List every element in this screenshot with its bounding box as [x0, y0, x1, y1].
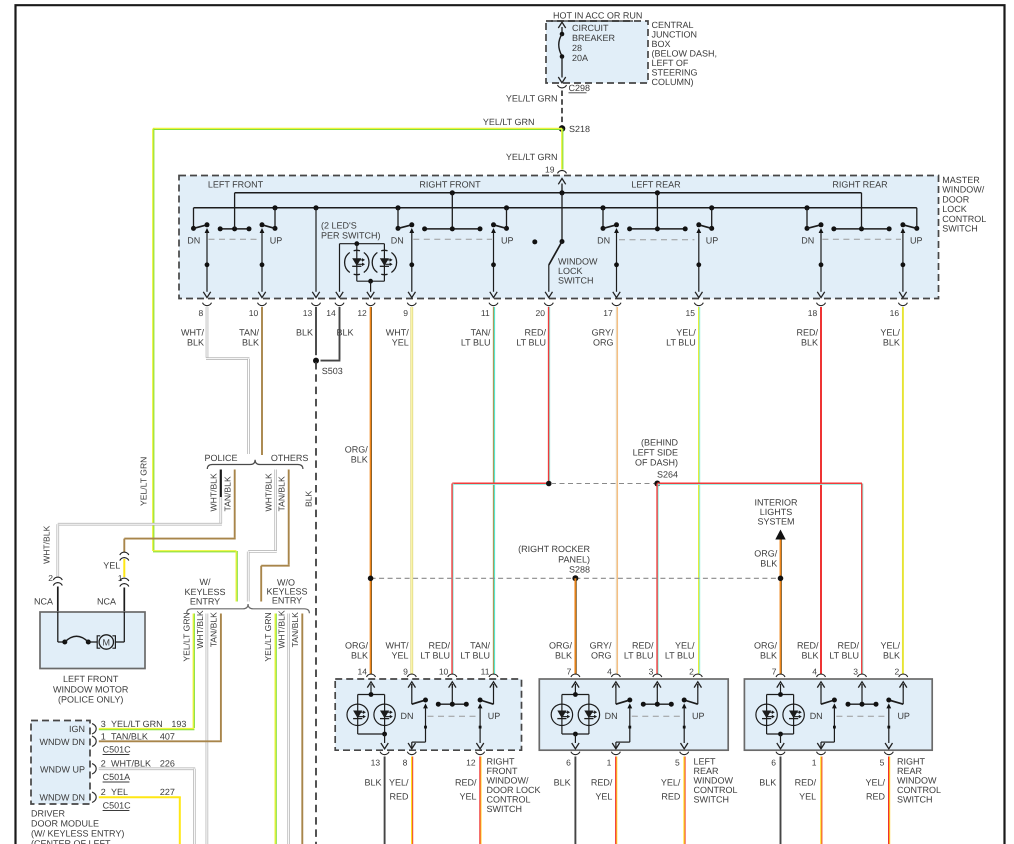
svg-text:WHT/: WHT/	[386, 328, 409, 338]
svg-text:LEFT OF: LEFT OF	[652, 58, 689, 68]
svg-text:CONTROL: CONTROL	[694, 785, 738, 795]
svg-text:TAN/BLK: TAN/BLK	[290, 612, 300, 647]
circuit breaker 28 20A	[561, 27, 563, 34]
svg-text:COLUMN): COLUMN)	[652, 77, 694, 87]
svg-text:LT BLU: LT BLU	[665, 651, 695, 661]
svg-text:WINDOW/: WINDOW/	[942, 185, 984, 195]
svg-text:ENTRY: ENTRY	[190, 597, 220, 607]
svg-text:LT BLU: LT BLU	[829, 651, 859, 661]
wire RED/BLK from pin 18 down	[820, 307, 822, 674]
LED D2	[578, 704, 599, 725]
svg-text:REAR: REAR	[694, 766, 720, 776]
wire BLK dashed from S503 to bottom	[315, 362, 317, 844]
wire BLK from pin 14 to S503	[339, 307, 341, 360]
pin 8 connector/label	[407, 752, 416, 755]
svg-text:15: 15	[686, 308, 696, 318]
svg-text:YEL/LT GRN: YEL/LT GRN	[263, 612, 273, 661]
switch DN blade	[602, 208, 604, 229]
wire ORG/BLK interior lights to right rear pin 7	[780, 540, 782, 675]
wire from UP contact down to pin	[901, 228, 906, 233]
switch common feed	[451, 193, 453, 229]
svg-text:10: 10	[439, 666, 449, 676]
svg-text:RED/: RED/	[591, 778, 613, 788]
pin 17 connector	[612, 303, 621, 306]
svg-text:2: 2	[101, 759, 106, 769]
svg-text:DOOR MODULE: DOOR MODULE	[31, 819, 99, 829]
svg-text:GRY/: GRY/	[590, 641, 612, 651]
wire dashed from C298 to S218	[561, 91, 563, 126]
bus junction at LR common	[655, 190, 660, 195]
svg-text:YEL: YEL	[111, 787, 128, 797]
svg-text:TAN/BLK: TAN/BLK	[276, 476, 286, 511]
svg-text:DN: DN	[801, 236, 814, 246]
svg-text:UP: UP	[692, 711, 705, 721]
connector pin 2 motor	[53, 577, 62, 580]
svg-text:LOCK: LOCK	[942, 204, 967, 214]
svg-text:S288: S288	[569, 565, 590, 575]
svg-text:BREAKER: BREAKER	[572, 33, 616, 43]
svg-text:WINDOW: WINDOW	[558, 257, 598, 267]
svg-text:WNDW UP: WNDW UP	[40, 765, 85, 775]
svg-text:MASTER: MASTER	[942, 175, 980, 185]
wire RED/LT BLU from S264 to right rear branch	[657, 483, 862, 485]
svg-text:BLK: BLK	[296, 328, 313, 338]
svg-text:BLK: BLK	[555, 651, 572, 661]
svg-text:11: 11	[481, 666, 490, 676]
svg-text:12: 12	[466, 758, 476, 768]
master window/door lock control switch box	[179, 176, 939, 299]
pin 1 connector/label	[611, 752, 620, 755]
svg-text:ORG/: ORG/	[754, 641, 778, 651]
svg-text:WNDW DN: WNDW DN	[40, 793, 86, 803]
svg-text:DN: DN	[597, 236, 610, 246]
wire YEL/LT GRN long vertical at left	[152, 129, 154, 551]
svg-text:LIGHTS: LIGHTS	[760, 507, 793, 517]
pin 13 connector/label	[380, 752, 389, 755]
svg-text:ENTRY: ENTRY	[272, 596, 302, 606]
wire from UP contact down to pin	[491, 228, 496, 233]
svg-text:BLK: BLK	[351, 651, 368, 661]
wire RED/LT BLU from pin 20 down to junction	[548, 307, 550, 484]
motor internal leads and switch	[57, 612, 59, 642]
svg-text:6: 6	[566, 758, 571, 768]
svg-text:UP: UP	[897, 711, 910, 721]
wire RED/LT BLU horizontal run	[452, 483, 549, 485]
svg-text:YEL: YEL	[392, 338, 409, 348]
svg-text:ORG: ORG	[593, 338, 614, 348]
svg-text:CENTRAL: CENTRAL	[652, 20, 694, 30]
switch UP	[697, 684, 699, 704]
pin 6 connector/label	[571, 752, 580, 755]
switch DN blade	[397, 208, 399, 229]
bus line upper (common feed)	[235, 192, 862, 194]
wire BLK lr pin6	[574, 757, 576, 844]
svg-text:WHT/: WHT/	[386, 641, 409, 651]
svg-text:(W/ KEYLESS ENTRY): (W/ KEYLESS ENTRY)	[31, 829, 124, 839]
splice S503	[313, 358, 319, 364]
svg-text:1: 1	[812, 758, 817, 768]
wire RED/YEL lr pin1	[615, 757, 617, 844]
svg-text:RED: RED	[661, 792, 681, 802]
svg-text:SWITCH: SWITCH	[942, 224, 978, 234]
LED D1	[756, 704, 777, 725]
svg-text:4: 4	[607, 666, 612, 676]
svg-text:INTERIOR: INTERIOR	[754, 498, 798, 508]
svg-text:YEL/LT GRN: YEL/LT GRN	[506, 152, 558, 162]
wire YEL segment	[123, 559, 125, 577]
driver door module box	[31, 721, 90, 805]
wire from DN contact down to pin	[409, 228, 414, 233]
svg-text:LT BLU: LT BLU	[461, 338, 491, 348]
wire RED/LT BLU from S264 down to left rear pin 3	[656, 484, 658, 675]
pin 11 connector	[489, 303, 498, 306]
svg-text:SWITCH: SWITCH	[487, 804, 523, 814]
switch common	[451, 684, 453, 704]
svg-text:S264: S264	[657, 470, 678, 480]
switch common	[861, 684, 863, 704]
svg-text:WINDOW: WINDOW	[897, 776, 937, 786]
svg-text:2: 2	[689, 666, 694, 676]
svg-text:TAN/: TAN/	[470, 641, 490, 651]
svg-text:DN: DN	[391, 236, 404, 246]
bus2 junction	[272, 205, 277, 210]
svg-text:IGN: IGN	[69, 724, 85, 734]
wire TAN/BLK from pin 10	[261, 307, 263, 455]
svg-text:WHT/: WHT/	[181, 328, 204, 338]
bus junction at pin19	[559, 190, 564, 195]
switch DN	[615, 684, 617, 704]
svg-text:TAN/: TAN/	[471, 328, 491, 338]
wire from DN contact down to pin	[614, 228, 619, 233]
svg-text:19: 19	[545, 165, 555, 175]
svg-text:YEL: YEL	[595, 792, 612, 802]
wire TAN/BLK others branch	[288, 470, 290, 565]
svg-text:YEL/LT GRN: YEL/LT GRN	[111, 719, 163, 729]
svg-text:6: 6	[771, 758, 776, 768]
svg-text:YEL/: YEL/	[880, 328, 900, 338]
wire WHT/BLK w/ keyless	[206, 614, 209, 844]
svg-text:C501A: C501A	[103, 772, 131, 782]
pin 8 connector	[203, 303, 212, 306]
wire BLK rf pin13	[384, 757, 386, 844]
wire ORG/BLK from S288 down to left rear pin 7	[574, 578, 576, 674]
svg-text:UP: UP	[706, 236, 719, 246]
svg-text:YEL: YEL	[459, 792, 476, 802]
svg-text:9: 9	[403, 308, 408, 318]
svg-text:1: 1	[101, 732, 106, 742]
wire YEL/LT GRN from S218 down to pin 19	[561, 129, 563, 170]
svg-text:S218: S218	[569, 124, 590, 134]
svg-text:WHT/BLK: WHT/BLK	[263, 473, 273, 511]
svg-text:SWITCH: SWITCH	[558, 276, 594, 286]
svg-text:2: 2	[48, 573, 53, 583]
svg-text:DN: DN	[810, 711, 823, 721]
svg-text:YEL/LT GRN: YEL/LT GRN	[139, 457, 149, 506]
splice S288	[572, 575, 578, 581]
svg-text:16: 16	[890, 308, 900, 318]
svg-text:WINDOW MOTOR: WINDOW MOTOR	[53, 685, 129, 695]
svg-text:PER SWITCH): PER SWITCH)	[321, 231, 381, 241]
svg-text:LEFT FRONT: LEFT FRONT	[208, 180, 264, 190]
junction interior wire at dashed line	[778, 576, 784, 582]
svg-text:RIGHT FRONT: RIGHT FRONT	[419, 180, 481, 190]
svg-text:BLK: BLK	[351, 455, 368, 465]
svg-text:STEERING: STEERING	[652, 68, 698, 78]
wire from UP contact down to pin	[260, 228, 265, 233]
svg-text:BLK: BLK	[883, 651, 900, 661]
LED D2	[783, 704, 804, 725]
wire GRY/ORG from pin 17 down	[616, 307, 618, 674]
svg-text:(BELOW DASH,: (BELOW DASH,	[652, 49, 718, 59]
pin 12 connector/label	[476, 752, 485, 755]
svg-text:7: 7	[567, 666, 572, 676]
svg-text:(2 LED'S: (2 LED'S	[321, 221, 357, 231]
svg-text:RIGHT: RIGHT	[487, 757, 516, 767]
svg-text:12: 12	[357, 308, 367, 318]
switch UP blade	[274, 208, 276, 229]
svg-text:WHT/BLK: WHT/BLK	[111, 759, 151, 769]
LED D1	[347, 704, 368, 725]
left front window motor box	[40, 612, 145, 669]
svg-text:ORG: ORG	[591, 651, 612, 661]
svg-text:BLK: BLK	[760, 559, 777, 569]
dashed link to S264	[551, 483, 655, 485]
switch UP	[902, 684, 904, 704]
switch UP blade	[914, 226, 919, 231]
svg-text:28: 28	[572, 43, 582, 53]
wire YEL/RED rf pin8	[411, 757, 413, 844]
switch UP	[493, 684, 495, 704]
svg-text:193: 193	[171, 719, 186, 729]
svg-text:DRIVER: DRIVER	[31, 809, 66, 819]
switch common feed	[656, 193, 658, 229]
LED indicator pair	[767, 694, 794, 696]
svg-text:M: M	[103, 637, 111, 647]
svg-text:RED/: RED/	[795, 778, 817, 788]
svg-text:PANEL): PANEL)	[558, 555, 590, 565]
svg-text:BLK: BLK	[760, 651, 777, 661]
svg-text:BLK: BLK	[883, 338, 900, 348]
svg-text:9: 9	[403, 666, 408, 676]
svg-text:OTHERS: OTHERS	[271, 453, 309, 463]
svg-text:JUNCTION: JUNCTION	[652, 30, 698, 40]
pin 10 connector	[258, 303, 267, 306]
wire TAN/BLK w/ keyless	[220, 614, 222, 741]
svg-text:CONTROL: CONTROL	[487, 795, 531, 805]
svg-text:BOX: BOX	[652, 39, 671, 49]
switch DN	[411, 684, 413, 704]
wire YEL from WNDW DN	[99, 796, 181, 798]
svg-text:GRY/: GRY/	[592, 328, 614, 338]
brace POLICE/OTHERS	[207, 460, 303, 469]
svg-text:SYSTEM: SYSTEM	[757, 517, 794, 527]
svg-text:5: 5	[880, 758, 885, 768]
svg-text:BLK: BLK	[801, 338, 818, 348]
wire TAN/LT BLU from pin 11 down	[493, 307, 495, 674]
bus junction at RF common	[450, 190, 455, 195]
pin 5 connector/label	[680, 752, 689, 755]
wire from DN contact down to pin	[819, 228, 824, 233]
pin 6 connector/label	[776, 752, 785, 755]
svg-text:YEL/: YEL/	[880, 641, 900, 651]
motor M symbol	[97, 636, 100, 648]
LED indicator pair	[562, 694, 589, 696]
wire YEL/RED rr pin5	[888, 757, 890, 844]
svg-text:WINDOW/: WINDOW/	[487, 776, 529, 786]
switch common feed	[834, 228, 889, 230]
svg-text:20A: 20A	[572, 53, 588, 63]
wire WHT/YEL from pin 9 down	[410, 307, 413, 674]
svg-text:UP: UP	[501, 236, 514, 246]
wire TAN/BLK w/o keyless	[301, 614, 303, 844]
bus2 junction	[395, 205, 400, 210]
svg-text:WHT/BLK: WHT/BLK	[195, 610, 205, 648]
svg-text:YEL: YEL	[799, 792, 816, 802]
pin 16 connector	[898, 303, 907, 306]
wire YEL/BLK from pin 16 down	[902, 307, 904, 674]
svg-text:BLK: BLK	[242, 338, 259, 348]
pin 5 connector/label	[884, 752, 893, 755]
svg-text:407: 407	[160, 732, 175, 742]
mechanical link (dashed)	[209, 238, 260, 240]
right rear window control switch box	[744, 679, 932, 750]
svg-text:RED/: RED/	[428, 641, 450, 651]
svg-text:2: 2	[894, 666, 899, 676]
right front window/door lock control switch box	[335, 679, 521, 750]
svg-text:BLK: BLK	[304, 490, 314, 507]
wire RED/YEL rf pin12	[479, 757, 481, 844]
svg-text:ORG/: ORG/	[754, 549, 778, 559]
junction ORG/BLK at dashed line	[368, 576, 374, 582]
pin 18 connector	[817, 303, 826, 306]
svg-text:SWITCH: SWITCH	[897, 795, 933, 805]
svg-text:13: 13	[371, 758, 381, 768]
bus2 junction	[804, 205, 809, 210]
svg-text:BLK: BLK	[554, 778, 571, 788]
switch common	[656, 684, 658, 704]
svg-text:UP: UP	[910, 236, 923, 246]
svg-text:REAR: REAR	[897, 766, 923, 776]
svg-text:LOCK: LOCK	[558, 266, 583, 276]
svg-text:RED/: RED/	[796, 328, 818, 338]
svg-text:8: 8	[198, 308, 203, 318]
wire TAN/BLK police branch	[234, 470, 236, 538]
svg-text:3: 3	[101, 719, 106, 729]
bus line lower (switch pivots)	[194, 207, 917, 209]
svg-text:UP: UP	[270, 236, 283, 246]
wire YEL/LT GRN w/ keyless	[193, 614, 195, 729]
wire RED/LT BLU down to right rear pin 3	[861, 484, 863, 675]
dashed splice line S288	[371, 577, 576, 579]
wire YEL/LT BLU from pin 15 down	[698, 307, 700, 674]
svg-text:14: 14	[358, 666, 368, 676]
wire WHT/BLK others branch	[274, 470, 277, 551]
svg-text:WHT/BLK: WHT/BLK	[277, 610, 287, 648]
switch DN blade	[193, 208, 195, 229]
pin 9 connector	[407, 303, 416, 306]
svg-text:20: 20	[536, 308, 546, 318]
svg-text:WHT/BLK: WHT/BLK	[42, 525, 52, 563]
switch DN	[820, 684, 822, 704]
svg-text:RED/: RED/	[837, 641, 859, 651]
svg-text:TAN/BLK: TAN/BLK	[222, 476, 232, 511]
left rear window control switch box	[539, 679, 728, 750]
svg-text:1: 1	[118, 573, 123, 583]
svg-text:YEL: YEL	[391, 651, 408, 661]
pin 13 connector	[312, 303, 321, 306]
svg-text:LEFT FRONT: LEFT FRONT	[63, 674, 119, 684]
svg-text:(POLICE ONLY): (POLICE ONLY)	[58, 695, 123, 705]
svg-text:NCA: NCA	[34, 597, 53, 607]
svg-text:11: 11	[481, 308, 490, 318]
svg-text:2: 2	[101, 787, 106, 797]
motor lead pin 2 (NCA)	[57, 587, 59, 613]
svg-text:RED/: RED/	[797, 641, 819, 651]
svg-text:ORG/: ORG/	[345, 641, 369, 651]
LED D1 (dashed circle)	[345, 253, 350, 273]
svg-text:C501C: C501C	[103, 801, 132, 811]
svg-text:(BEHIND: (BEHIND	[641, 438, 679, 448]
mechanical link dashed	[836, 715, 886, 717]
wire BLK from pin 13 to S503	[315, 307, 317, 355]
bus2 junction	[709, 205, 714, 210]
svg-text:10: 10	[249, 308, 259, 318]
svg-text:DOOR: DOOR	[942, 194, 970, 204]
svg-text:CONTROL: CONTROL	[897, 785, 941, 795]
junction pin20 wire to horizontal	[546, 481, 552, 487]
svg-text:YEL/: YEL/	[675, 641, 695, 651]
pin 13 feed wire inside box	[315, 208, 317, 292]
motor lead pin 1 (NCA)	[123, 588, 125, 613]
svg-text:RED/: RED/	[632, 641, 654, 651]
bus2 junction	[504, 205, 509, 210]
connector C298	[558, 85, 567, 88]
svg-text:LEFT SIDE: LEFT SIDE	[633, 448, 678, 458]
mechanical link (dashed)	[413, 238, 492, 240]
LED D1	[551, 704, 572, 725]
mechanical link (dashed)	[619, 239, 694, 241]
svg-text:DN: DN	[605, 711, 618, 721]
wire RED/LT BLU down to right front pin 10	[451, 484, 453, 675]
svg-text:TAN/: TAN/	[239, 328, 259, 338]
mechanical link dashed	[632, 715, 682, 717]
svg-text:RIGHT: RIGHT	[897, 757, 926, 767]
pin 15 connector	[694, 303, 703, 306]
svg-text:DOOR LOCK: DOOR LOCK	[487, 785, 541, 795]
svg-text:WHT/BLK: WHT/BLK	[209, 473, 219, 511]
LED indicator pair	[358, 694, 385, 696]
wire WHT/BLK from pin 8	[206, 307, 209, 358]
svg-text:RED: RED	[866, 792, 886, 802]
svg-text:4: 4	[812, 666, 817, 676]
svg-text:YEL/: YEL/	[661, 778, 681, 788]
svg-text:ORG/: ORG/	[345, 445, 369, 455]
svg-text:1: 1	[607, 758, 612, 768]
svg-text:3: 3	[853, 666, 858, 676]
wire from DN contact down to pin	[205, 228, 210, 233]
connector pin 1 motor	[120, 578, 129, 581]
pin 20 connector	[544, 303, 553, 306]
svg-text:POLICE: POLICE	[204, 453, 237, 463]
svg-text:BLK: BLK	[364, 778, 381, 788]
svg-text:CONTROL: CONTROL	[942, 214, 986, 224]
svg-text:BLK: BLK	[187, 338, 204, 348]
pin 19 entry arrow and feed wire	[561, 184, 563, 193]
svg-text:CIRCUIT: CIRCUIT	[572, 23, 609, 33]
svg-text:OF DASH): OF DASH)	[635, 458, 678, 468]
LED D2 (dashed circle)	[372, 253, 377, 273]
svg-text:(CENTER OF LEFT: (CENTER OF LEFT	[31, 839, 111, 844]
